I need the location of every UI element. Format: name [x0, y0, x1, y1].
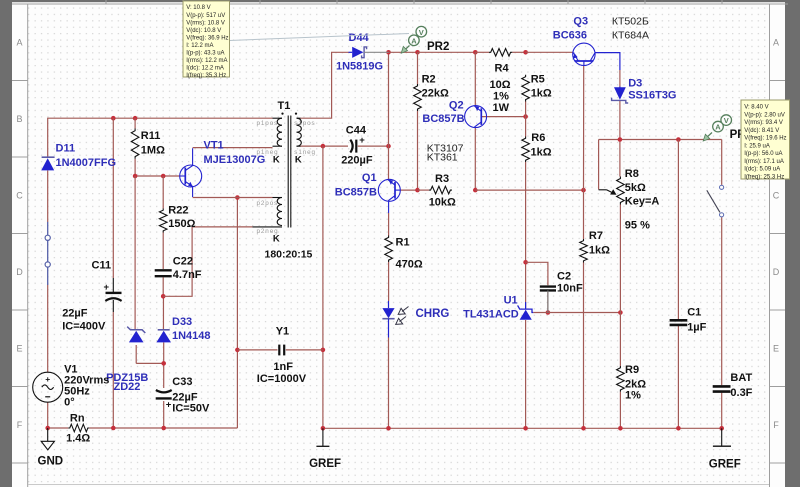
svg-text:0.3F: 0.3F — [730, 387, 752, 399]
svg-text:D: D — [773, 267, 780, 277]
wire top rail to Q2 emitter node — [418, 51, 476, 53]
svg-text:V(p-p): 517 uV: V(p-p): 517 uV — [186, 13, 225, 19]
svg-text:K: K — [273, 155, 280, 166]
wire Y1 left lead — [237, 349, 277, 351]
junction bus right end at BAT — [719, 426, 724, 431]
svg-text:V(rms): 93.4 V: V(rms): 93.4 V — [744, 120, 783, 126]
wire Q1 emitter column from D44 rail down to Q1 — [388, 52, 390, 179]
wire top-left bus from D11 corner to transformer p1pos — [48, 118, 273, 157]
wire Q1 base lead to node — [401, 189, 418, 191]
ground GND symbol — [38, 428, 64, 468]
transformer T1 180:20:15 — [253, 100, 316, 261]
wire from D33 node right and up to transformer p2neg — [163, 227, 252, 296]
svg-text:p2pos: p2pos — [257, 200, 279, 207]
svg-text:V: 10.8 V: V: 10.8 V — [186, 5, 210, 11]
svg-text:1%: 1% — [493, 91, 509, 103]
fuse FU between D11 and V1 — [45, 222, 50, 285]
resistor R1 470 — [385, 213, 423, 301]
svg-text:BC636: BC636 — [553, 30, 587, 42]
wire C1 leads — [677, 140, 679, 320]
junction C2 bottom ref node — [546, 310, 551, 315]
svg-text:R3: R3 — [435, 173, 449, 185]
diode D11 1N4007FFG — [41, 143, 116, 171]
wire top rail to R4 left — [475, 51, 489, 53]
capacitor C22 4.7nF — [155, 256, 202, 282]
switch S1 — [707, 185, 724, 217]
svg-text:I(freq): 25.3 Hz: I(freq): 25.3 Hz — [744, 174, 784, 180]
svg-text:Q3: Q3 — [573, 16, 588, 28]
svg-text:V(p-p): 2.80 uV: V(p-p): 2.80 uV — [744, 112, 785, 118]
wire switch bottom to BAT top — [721, 217, 723, 385]
svg-text:IC=400V: IC=400V — [62, 321, 106, 333]
svg-text:R6: R6 — [531, 132, 545, 144]
svg-text:1µF: 1µF — [687, 322, 706, 334]
transistor VT1 MJE13007G NPN — [180, 140, 266, 198]
wire top rail R5 node to Q3 emitter — [526, 51, 573, 53]
svg-text:Q2: Q2 — [449, 100, 464, 112]
junction R11 bottom node — [133, 174, 138, 179]
wire Q2 collector down to R3 right node — [474, 128, 476, 190]
svg-text:D44: D44 — [349, 32, 370, 44]
svg-text:V: V — [724, 116, 729, 125]
resistor R2 22k — [414, 74, 449, 112]
svg-text:1N5819G: 1N5819G — [336, 61, 383, 73]
zener diode ZD22 PDZ15B — [106, 327, 148, 393]
svg-text:E: E — [16, 344, 22, 354]
svg-text:F: F — [17, 420, 23, 430]
svg-text:10kΩ: 10kΩ — [429, 197, 456, 209]
svg-text:+: + — [45, 374, 50, 384]
wire V1 minus terminal to bottom-left bus — [47, 402, 49, 428]
wire VT1 collector to transformer p1neg — [193, 147, 273, 149]
wire s1pos up to diode D44 rail — [301, 52, 349, 118]
junction Y1 right node on s1neg column — [321, 348, 326, 353]
junction R5 top node — [523, 50, 528, 55]
wire zener column from R11 node down to ZD22 cathode — [134, 176, 136, 329]
svg-text:1MΩ: 1MΩ — [141, 145, 165, 157]
svg-text:V(dc): 10.8 V: V(dc): 10.8 V — [186, 28, 221, 34]
junction U1 anode on bus — [523, 426, 528, 431]
wire R6 bottom down to U1 cathode node — [525, 162, 527, 309]
svg-text:I(dc): 5.09 uA: I(dc): 5.09 uA — [744, 167, 780, 173]
svg-text:p1pos: p1pos — [257, 120, 279, 127]
svg-text:B: B — [16, 114, 22, 124]
capacitor C2 10nF — [540, 271, 583, 313]
wire Q1 base node to R3 left — [418, 189, 430, 191]
wire Q2 emitter lead down to transistor — [474, 52, 476, 106]
junction Q1 base node — [415, 188, 420, 193]
wire R3 right node to R7 top node — [475, 189, 583, 191]
wire Q3 collector right then down to D3 — [619, 70, 621, 87]
svg-text:R22: R22 — [168, 205, 188, 217]
svg-text:Rn: Rn — [70, 413, 85, 425]
junction CHRG bottom on bus — [386, 426, 391, 431]
junction R7 top node / Q3 base node — [581, 188, 586, 193]
svg-text:R5: R5 — [531, 74, 545, 86]
svg-text:10nF: 10nF — [557, 283, 583, 295]
junction D3/R8 column on output rail — [618, 137, 623, 142]
svg-text:KT361: KT361 — [427, 152, 458, 164]
junction R7 bottom on bus — [581, 426, 586, 431]
svg-text:GREF: GREF — [709, 459, 741, 471]
svg-text:C22: C22 — [173, 256, 193, 268]
svg-text:R2: R2 — [422, 74, 436, 86]
svg-text:C11: C11 — [92, 260, 112, 272]
wire left bus corner up to VT1 emitter rail — [236, 198, 238, 429]
svg-text:D33: D33 — [172, 316, 192, 328]
capacitor BAT 0.3F — [713, 372, 753, 399]
potentiometer R8 5k Key=A 95% — [599, 168, 660, 232]
wire BAT bottom to bus end — [721, 393, 723, 429]
capacitor C44 220uF — [341, 125, 373, 167]
svg-text:V(freq): 36.9 Hz: V(freq): 36.9 Hz — [186, 35, 228, 41]
svg-text:I(freq): 35.3 Hz: I(freq): 35.3 Hz — [186, 73, 226, 79]
resistor R6 1k — [522, 132, 552, 162]
output rail from wiper riser to switch corner — [599, 139, 722, 141]
svg-text:1N4007FFG: 1N4007FFG — [56, 157, 117, 169]
svg-text:470Ω: 470Ω — [396, 259, 423, 271]
wire from U1 cathode node to C2 top — [526, 262, 548, 285]
svg-text:1%: 1% — [625, 390, 641, 402]
svg-text:V: V — [419, 28, 424, 37]
wire R8 wiper riser from output rail — [598, 140, 600, 190]
svg-text:D3: D3 — [628, 78, 642, 90]
svg-text:C1: C1 — [687, 307, 701, 319]
diode D44 1N5819G schottky — [336, 32, 389, 73]
diode D3 SS16T3G schottky — [612, 78, 677, 104]
junction R9 bottom on bus — [618, 426, 623, 431]
junction R22 top node — [161, 174, 166, 179]
wire D33/ZD22 anode node down to C33 — [135, 345, 137, 363]
junction s1neg node — [321, 144, 326, 149]
resistor R9 2k 1% — [617, 364, 647, 402]
junction C1 bottom on bus — [676, 426, 681, 431]
svg-text:180:20:15: 180:20:15 — [265, 249, 313, 261]
svg-text:Key=A: Key=A — [625, 196, 660, 208]
svg-text:s1pos: s1pos — [294, 120, 315, 127]
svg-text:V(freq): 19.6 Hz: V(freq): 19.6 Hz — [744, 136, 786, 142]
wire R2 body leads — [417, 52, 419, 84]
transistor Q3 BC636 PNP — [553, 16, 649, 71]
svg-text:CHRG: CHRG — [416, 308, 450, 320]
wire s1neg to C44 node — [301, 145, 349, 147]
junction on top-left bus at C11 column — [111, 116, 116, 121]
junction Q2 emitter top node — [473, 50, 478, 55]
svg-text:1.4Ω: 1.4Ω — [66, 433, 90, 445]
wire fuse to V1 plus terminal — [47, 285, 49, 373]
svg-text:R9: R9 — [625, 364, 639, 376]
svg-text:IC=1000V: IC=1000V — [257, 373, 307, 385]
svg-text:V(dc): 8.41 V: V(dc): 8.41 V — [744, 128, 779, 134]
svg-text:IC=50V: IC=50V — [172, 403, 210, 415]
svg-text:PR2: PR2 — [427, 41, 449, 53]
capacitor C11 22uF IC=400V — [62, 260, 121, 333]
wire C11 column upper segment — [112, 118, 114, 278]
svg-text:A: A — [715, 123, 721, 132]
svg-text:V(rms): 10.8 V: V(rms): 10.8 V — [186, 20, 225, 26]
svg-text:R1: R1 — [396, 237, 410, 249]
svg-text:1kΩ: 1kΩ — [589, 245, 610, 257]
svg-text:+: + — [104, 282, 110, 293]
wire Y1 right lead — [286, 349, 323, 351]
junction D33 cathode node — [161, 294, 166, 299]
junction R8 bottom / R9 top node — [618, 310, 623, 315]
svg-text:КТ502Б: КТ502Б — [612, 16, 649, 28]
svg-text:A: A — [411, 36, 417, 45]
svg-text:150Ω: 150Ω — [168, 218, 195, 230]
svg-text:A: A — [773, 38, 779, 48]
capacitor C1 1uF — [670, 307, 707, 334]
diode D33 1N4148 — [156, 316, 210, 342]
resistor R22 150 — [159, 205, 195, 233]
junction D44 cathode node on top rail — [386, 50, 391, 55]
wire R9 leads — [619, 313, 621, 367]
capacitor C33 22uF IC=50V — [156, 376, 210, 415]
LED CHRG indicator — [382, 301, 449, 428]
wire base net: R11 bottom to VT1 base — [134, 159, 136, 176]
svg-text:K: K — [295, 155, 302, 166]
resistor R4 10 1% 1W — [489, 49, 512, 115]
wire R7 leads — [583, 190, 585, 239]
junction C1 top on output rail — [676, 137, 681, 142]
junction VT1 emitter node — [235, 195, 240, 200]
junction GND node at V1 — [45, 426, 50, 431]
svg-text:A: A — [16, 38, 22, 48]
ground GREF middle symbol — [309, 428, 341, 470]
wire s1neg node down to GREF bus corner — [322, 146, 324, 428]
wire C44 right lead to Q1 emitter column — [358, 145, 389, 147]
svg-text:GREF: GREF — [309, 458, 341, 470]
svg-text:T1: T1 — [278, 100, 291, 112]
junction C33 bottom on bus — [161, 426, 166, 431]
svg-text:D: D — [16, 267, 23, 277]
svg-text:SS16T3G: SS16T3G — [628, 90, 676, 102]
wire C11 column lower segment to bottom bus — [112, 312, 114, 428]
junction R2 top node — [415, 50, 420, 55]
svg-text:D11: D11 — [56, 143, 76, 155]
svg-text:1kΩ: 1kΩ — [531, 88, 552, 100]
resistor R3 10k — [429, 173, 456, 209]
svg-text:220µF: 220µF — [341, 155, 373, 167]
svg-text:R4: R4 — [495, 63, 510, 75]
wire R8 bottom lead down to ref node — [619, 205, 621, 313]
svg-text:+: + — [166, 400, 172, 411]
svg-text:+: + — [359, 135, 365, 146]
svg-text:R8: R8 — [625, 168, 639, 180]
svg-text:10Ω: 10Ω — [490, 79, 511, 91]
svg-text:I(p-p): 43.3 uA: I(p-p): 43.3 uA — [186, 51, 224, 57]
transistor Q1 BC857B PNP — [335, 172, 401, 213]
probe PR1 icon with label — [703, 115, 752, 141]
transistor Q2 BC857B PNP — [422, 100, 486, 164]
bottom-left ground bus with Rn in series — [48, 427, 69, 429]
svg-text:TL431ACD: TL431ACD — [463, 309, 519, 321]
capacitor Y1 1nF IC=1000V — [257, 326, 307, 386]
svg-text:BC857B: BC857B — [422, 113, 464, 125]
wire R5 bottom to node to R6 top — [525, 102, 527, 137]
svg-text:КТ684А: КТ684А — [612, 30, 649, 42]
wire C33 bottom to bottom bus — [163, 401, 165, 428]
wire top rail D44 to R2/PR2 node — [389, 51, 418, 53]
svg-text:U1: U1 — [504, 295, 518, 307]
resistor Rn 1.4 — [66, 413, 90, 445]
svg-text:V: 8.40 V: V: 8.40 V — [744, 105, 768, 111]
junction Y1 left node — [235, 348, 240, 353]
svg-text:R7: R7 — [589, 230, 603, 242]
svg-text:5kΩ: 5kΩ — [625, 182, 646, 194]
svg-text:Q1: Q1 — [362, 172, 377, 184]
junction C44 right node — [386, 144, 391, 149]
wire U1 ref rail to R8 bottom node — [533, 312, 620, 314]
wire C2 bottom to ref node — [547, 292, 549, 313]
tooltip readout for PR1 — [741, 100, 790, 180]
wire C22 bottom to D33 cathode node — [162, 278, 164, 297]
resistor R11 1M — [131, 129, 165, 159]
ground GREF right symbol — [709, 428, 741, 470]
junction GREF stem node — [321, 426, 326, 431]
svg-text:22µF: 22µF — [62, 308, 88, 320]
junction on top-left bus at R11 column — [133, 116, 138, 121]
svg-text:I(rms): 12.2 mA: I(rms): 12.2 mA — [186, 58, 227, 64]
svg-text:1N4148: 1N4148 — [172, 330, 211, 342]
svg-text:BC857B: BC857B — [335, 187, 377, 199]
wire D3 cathode to R8 top — [619, 101, 621, 177]
svg-text:C44: C44 — [346, 125, 367, 137]
wire R11 top lead from bus — [134, 118, 136, 128]
GREF bottom bus — [323, 427, 722, 429]
wire R22 to C22 segment — [162, 176, 164, 209]
svg-text:BAT: BAT — [730, 372, 752, 384]
svg-text:95 %: 95 % — [625, 220, 650, 232]
wire D11 anode to fuse — [47, 171, 49, 223]
svg-text:K: K — [273, 233, 280, 244]
wire Q3 base column down to R7 node — [583, 66, 585, 190]
svg-text:C: C — [773, 191, 780, 201]
junction anode-C33 node — [161, 361, 166, 366]
source V1 220Vrms 50Hz — [33, 364, 110, 409]
junction C11 bottom on bus — [111, 426, 116, 431]
junction Q2 base node — [523, 114, 528, 119]
svg-text:F: F — [773, 420, 779, 430]
svg-text:C2: C2 — [557, 271, 571, 283]
svg-text:I(dc): 12.2 mA: I(dc): 12.2 mA — [186, 66, 224, 72]
wire U1 anode down to GREF bus — [525, 320, 527, 428]
svg-text:I(rms): 17.1 uA: I(rms): 17.1 uA — [744, 159, 784, 165]
svg-text:I(p-p): 56.0 uA: I(p-p): 56.0 uA — [744, 151, 782, 157]
probe PR2 icon — [230, 26, 450, 53]
wire R4 right to R5 top node — [512, 51, 525, 53]
svg-text:VT1: VT1 — [204, 140, 224, 152]
svg-text:1kΩ: 1kΩ — [531, 147, 552, 159]
svg-text:C: C — [16, 191, 23, 201]
wire VT1 emitter to transformer p2pos — [193, 197, 273, 199]
svg-text:C33: C33 — [172, 376, 192, 388]
svg-text:1W: 1W — [493, 102, 510, 114]
svg-text:1nF: 1nF — [273, 361, 293, 373]
svg-text:E: E — [773, 344, 779, 354]
tooltip readout for PR2 — [183, 1, 230, 79]
junction U1 cathode / C2 node — [523, 260, 528, 265]
shunt reference U1 TL431ACD — [463, 295, 533, 321]
svg-text:GND: GND — [38, 456, 64, 468]
svg-text:I: 12.2 mA: I: 12.2 mA — [186, 43, 213, 49]
wire Q2 base lead to R5/R6 node — [482, 116, 526, 118]
svg-text:22kΩ: 22kΩ — [422, 88, 449, 100]
svg-text:4.7nF: 4.7nF — [173, 269, 202, 281]
svg-text:Y1: Y1 — [276, 326, 289, 338]
svg-text:R11: R11 — [141, 130, 161, 142]
junction R3 right node — [473, 188, 478, 193]
svg-text:0°: 0° — [64, 397, 75, 409]
wire output rail corner down to switch — [721, 140, 723, 185]
resistor R5 1k — [522, 74, 552, 102]
svg-text:ZD22: ZD22 — [114, 381, 141, 393]
svg-text:I: 25.9 uA: I: 25.9 uA — [744, 143, 770, 149]
resistor R7 1k — [580, 230, 610, 263]
